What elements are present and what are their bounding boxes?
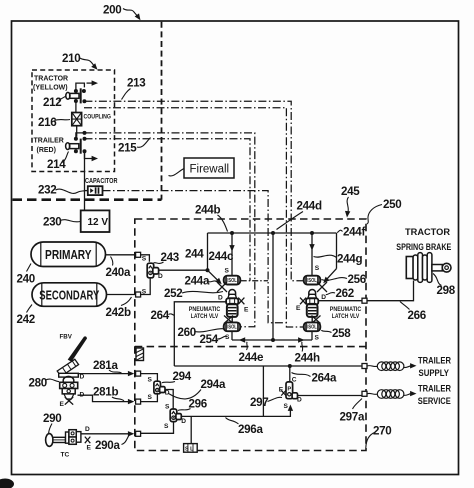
wire from switch 214 down to 12V	[84, 151, 86, 210]
label 281a	[93, 359, 122, 373]
svg-text:256: 256	[348, 273, 367, 286]
junction node 244	[206, 268, 210, 272]
svg-text:240a: 240a	[106, 266, 131, 279]
wire 297a trailer service	[298, 395, 362, 397]
wire 266 to tractor spring brake	[367, 281, 414, 301]
silencer SIL	[184, 416, 198, 452]
wire capacitor to latch valves (dash-dot)	[103, 191, 288, 323]
text pneumatic latch vlv right	[330, 307, 362, 320]
svg-text:230: 230	[43, 216, 61, 229]
label 215	[118, 138, 151, 155]
pneumatic latch valve 260 (left)	[226, 290, 244, 323]
svg-text:D: D	[218, 294, 223, 301]
wire 264a trailer supply feed line	[174, 365, 362, 367]
svg-text:S L: S L	[185, 447, 194, 453]
svg-text:PRIMARY: PRIMARY	[45, 248, 92, 262]
svg-text:250: 250	[383, 198, 401, 211]
svg-text:(YELLOW): (YELLOW)	[33, 85, 68, 92]
svg-text:244g: 244g	[337, 253, 362, 266]
294 port labels	[148, 376, 170, 401]
svg-text:TRACTOR: TRACTOR	[34, 76, 68, 83]
label 297	[250, 396, 282, 409]
svg-text:252: 252	[164, 287, 182, 300]
wire 244f corner	[336, 233, 338, 269]
switch 214 (trailer red)	[66, 131, 98, 161]
svg-text:244a: 244a	[185, 275, 210, 288]
label 296a	[226, 418, 264, 436]
latch right port labels	[296, 294, 326, 312]
label 244f	[337, 226, 365, 239]
svg-text:CAPACITOR: CAPACITOR	[85, 178, 118, 185]
battery 12V	[81, 210, 110, 232]
wires into double check valve 243	[141, 255, 151, 295]
connector 290a at wall	[136, 431, 141, 436]
label 256	[322, 273, 367, 286]
wire 213b from switch212 (dash-dot)	[84, 108, 304, 327]
label 244a	[185, 275, 217, 288]
wire switch212 to coupling	[75, 101, 77, 113]
svg-text:262: 262	[336, 287, 354, 300]
label 216	[38, 116, 70, 129]
svg-text:E: E	[60, 401, 65, 408]
bulkhead hatched fitting	[136, 348, 144, 361]
text TRAILER SUPPLY	[418, 356, 451, 379]
exhaust X upper right ISOL	[317, 282, 327, 292]
label 245	[341, 185, 360, 218]
svg-text:P: P	[287, 386, 291, 392]
svg-text:245: 245	[341, 185, 360, 198]
label 296	[178, 397, 208, 410]
svg-text:200: 200	[103, 4, 121, 17]
label 214	[47, 152, 69, 172]
wire 242b secondary to connector	[107, 294, 136, 296]
wire drop to right ISOL	[309, 233, 314, 276]
label 212	[43, 96, 66, 109]
svg-text:COUPLING: COUPLING	[84, 114, 112, 121]
svg-text:280: 280	[29, 377, 47, 390]
firewall horizontal dashed line	[13, 198, 162, 201]
svg-text:S: S	[164, 423, 169, 430]
wire 264 latch D-line left	[174, 302, 226, 366]
relay valve 297	[281, 382, 297, 399]
svg-text:240: 240	[17, 272, 35, 285]
label 243	[154, 251, 180, 264]
svg-text:215: 215	[118, 142, 137, 155]
svg-text:294: 294	[173, 370, 192, 383]
svg-text:297: 297	[250, 396, 268, 409]
wire coupling to switch 214	[76, 126, 78, 137]
label 270	[366, 425, 392, 449]
dashed box 245/250	[135, 219, 366, 451]
wire 215b from switch214 (dash-dot)	[85, 139, 251, 281]
svg-text:D: D	[297, 396, 302, 403]
svg-text:264: 264	[151, 309, 170, 322]
svg-text:290a: 290a	[95, 439, 120, 452]
svg-text:S: S	[165, 403, 170, 410]
svg-text:C: C	[292, 377, 297, 384]
svg-text:210: 210	[62, 52, 80, 65]
svg-text:281a: 281a	[93, 359, 118, 372]
dashed divider box 270 top	[135, 346, 366, 348]
label 254	[200, 333, 228, 346]
wire 244a diagonal to left latch valve	[208, 270, 224, 286]
wires shuttle valve 296	[141, 422, 174, 434]
label 244g	[314, 253, 363, 266]
connector 281a at wall	[136, 371, 141, 376]
label 294a	[169, 378, 226, 399]
exhaust X upper left ISOL	[217, 282, 227, 292]
text TRAILER (RED)	[34, 138, 64, 155]
label 280	[29, 377, 60, 390]
svg-text:S: S	[225, 334, 230, 341]
label 242	[17, 305, 35, 327]
svg-text:E: E	[87, 444, 92, 451]
double check valve 243	[147, 263, 163, 280]
label 264	[151, 309, 175, 322]
svg-text:D: D	[85, 426, 90, 433]
svg-text:244: 244	[185, 248, 204, 261]
node at center drop	[271, 231, 275, 235]
firewall vertical dashed line	[161, 22, 163, 200]
svg-text:(RED): (RED)	[37, 147, 56, 154]
shuttle valve 294	[154, 381, 165, 394]
svg-text:214: 214	[47, 158, 66, 171]
node at left drop	[230, 231, 234, 235]
svg-text:E: E	[279, 387, 284, 394]
exhaust X lower right	[312, 316, 321, 324]
isolation solenoid valve lower left	[224, 322, 241, 340]
foot brake valve FBV 280	[57, 336, 87, 404]
connector trailer supply at wall	[362, 364, 367, 369]
pneumatic latch valve 262 (right)	[300, 290, 318, 323]
isolation solenoid valve upper right	[304, 265, 321, 285]
text TRAILER SERVICE	[418, 384, 452, 407]
label 242b	[106, 297, 132, 319]
svg-text:244b: 244b	[195, 204, 220, 217]
trailer service coil	[367, 390, 417, 399]
svg-text:298: 298	[437, 284, 456, 297]
svg-text:244h: 244h	[295, 352, 320, 365]
svg-text:D: D	[181, 418, 186, 425]
wire 296a to relay 297	[182, 405, 294, 417]
svg-text:12 V: 12 V	[88, 217, 109, 228]
label 244h	[295, 342, 320, 365]
svg-text:213: 213	[127, 77, 146, 90]
svg-text:244c: 244c	[209, 250, 234, 263]
trailer supply coil	[367, 362, 417, 371]
wire drop to relay 297 pilot	[288, 364, 292, 382]
svg-text:294a: 294a	[201, 378, 226, 391]
svg-text:242b: 242b	[106, 306, 131, 319]
label 240	[17, 264, 35, 286]
capacitor 232	[85, 178, 118, 195]
isolation solenoid valve lower right	[304, 322, 321, 341]
svg-text:FBV: FBV	[60, 333, 73, 340]
svg-text:290: 290	[43, 412, 61, 425]
connector trailer service at wall	[362, 391, 367, 396]
label 258	[321, 327, 351, 340]
connector secondary at wall	[136, 289, 147, 297]
svg-text:E: E	[244, 306, 249, 313]
wire 244 valve243 to junction	[159, 269, 208, 271]
svg-text:244e: 244e	[239, 351, 264, 364]
label 252	[164, 287, 223, 300]
svg-text:E: E	[296, 305, 301, 312]
svg-text:S: S	[315, 265, 320, 272]
label 244b	[195, 204, 228, 232]
label 290a	[95, 435, 130, 452]
label 298	[433, 274, 456, 298]
svg-text:PNEUMATIC: PNEUMATIC	[330, 307, 362, 313]
svg-text:260: 260	[178, 326, 196, 339]
text pneumatic latch vlv left	[189, 307, 221, 320]
svg-text:242: 242	[17, 313, 35, 326]
wire 294 to 296	[165, 390, 173, 410]
TC port labels	[85, 426, 92, 452]
label 266	[400, 302, 427, 322]
svg-text:S: S	[142, 256, 147, 263]
svg-text:Firewall: Firewall	[190, 164, 230, 176]
label 200	[103, 4, 143, 22]
wire 244c drop to left ISOL	[229, 233, 234, 276]
svg-text:SECONDARY: SECONDARY	[39, 288, 99, 302]
wire 213a from switch212 to right ISOL (dash-dot)	[84, 101, 303, 280]
svg-text:TRAILER: TRAILER	[418, 384, 451, 394]
node at right drop	[310, 231, 314, 235]
svg-text:S: S	[225, 267, 230, 274]
text TRACTOR SPRING BRAKE	[396, 227, 451, 252]
svg-text:D: D	[80, 374, 85, 381]
svg-text:S: S	[315, 334, 320, 341]
297 port labels	[279, 377, 302, 410]
label 230	[43, 216, 80, 229]
svg-text:SPRING BRAKE: SPRING BRAKE	[396, 242, 451, 252]
svg-text:TRAILER: TRAILER	[34, 138, 64, 145]
svg-text:254: 254	[200, 333, 219, 346]
Firewall label box	[169, 158, 235, 178]
svg-text:270: 270	[373, 425, 391, 438]
svg-text:TC: TC	[61, 452, 70, 459]
svg-text:212: 212	[43, 96, 61, 109]
svg-text:296a: 296a	[238, 423, 263, 436]
wire 244d center drop	[272, 233, 274, 340]
label 244e	[239, 342, 264, 364]
exhaust X lower left	[224, 316, 233, 324]
label 262	[326, 287, 354, 300]
svg-text:S: S	[148, 394, 153, 401]
isolation solenoid valve upper left	[224, 267, 241, 284]
wires into shuttle valve 294	[141, 374, 158, 402]
wire 244g diagonal to right latch valve	[321, 269, 336, 285]
connector primary at wall	[136, 252, 147, 262]
label 250	[367, 198, 402, 224]
trailer control valve TC 290	[46, 430, 91, 447]
wire right latch D-line to wall connector	[318, 300, 362, 302]
wire 290a TC delivery	[81, 431, 134, 436]
connector spring brake at wall	[362, 298, 367, 303]
svg-text:PNEUMATIC: PNEUMATIC	[189, 307, 221, 313]
svg-text:232: 232	[38, 184, 56, 197]
svg-text:216: 216	[38, 116, 57, 129]
label 244d	[277, 200, 322, 230]
wire drop supply to 296a	[262, 366, 264, 416]
text TRACTOR (YELLOW)	[33, 76, 68, 92]
label 281b	[93, 385, 124, 401]
label 294	[162, 370, 192, 383]
svg-text:297a: 297a	[340, 410, 365, 423]
label 297a	[340, 399, 365, 424]
dashed box 210	[32, 70, 115, 172]
wire 281b secondary delivery	[78, 395, 135, 404]
wire 281a primary delivery	[78, 371, 135, 376]
svg-text:266: 266	[408, 309, 427, 322]
svg-text:258: 258	[332, 327, 351, 340]
svg-text:D: D	[158, 273, 163, 280]
svg-text:281b: 281b	[93, 385, 118, 398]
delivery line 244e 244h	[232, 337, 312, 342]
wire 240a primary to connector	[106, 254, 136, 256]
svg-text:SUPPLY: SUPPLY	[419, 368, 450, 378]
label 264a	[292, 371, 337, 384]
svg-text:LATCH VLV: LATCH VLV	[332, 314, 360, 320]
wire 215a from switch214 (dash-dot)	[85, 133, 255, 327]
svg-text:LATCH VLV: LATCH VLV	[191, 314, 219, 320]
connector 281b at wall	[136, 399, 141, 404]
svg-text:SERVICE: SERVICE	[418, 396, 451, 406]
primary tank 240	[31, 242, 106, 267]
296 port labels	[164, 403, 186, 430]
label 232	[38, 184, 84, 197]
ISOL control stub left upper (dash-dot)	[241, 280, 268, 282]
secondary tank 242	[32, 283, 107, 307]
label 213	[122, 77, 147, 100]
label 210	[62, 52, 100, 72]
svg-text:296: 296	[189, 397, 208, 410]
label 290	[43, 412, 61, 433]
scan blob bottom-left	[0, 479, 14, 488]
svg-text:S: S	[148, 376, 153, 383]
svg-text:244f: 244f	[343, 226, 365, 239]
svg-text:244d: 244d	[297, 200, 322, 213]
svg-text:D: D	[321, 294, 326, 301]
label 260	[178, 326, 225, 339]
riser wire to top manifold	[207, 233, 209, 270]
FBV port labels	[60, 374, 85, 408]
label 240a	[106, 257, 131, 280]
svg-text:TRAILER: TRAILER	[418, 356, 451, 366]
tractor spring brake 298	[406, 253, 451, 283]
latch left port labels	[218, 294, 249, 313]
svg-text:D: D	[165, 389, 170, 396]
coupling 216	[72, 113, 111, 126]
wire lower ISOL stems to delivery line	[232, 331, 312, 340]
top manifold wire 244b	[208, 232, 337, 234]
shuttle valve 296	[170, 409, 181, 422]
svg-text:TRACTOR: TRACTOR	[405, 227, 451, 237]
svg-text:264a: 264a	[312, 371, 337, 384]
svg-text:S: S	[284, 403, 289, 410]
switch 212 (tractor yellow)	[66, 80, 98, 103]
